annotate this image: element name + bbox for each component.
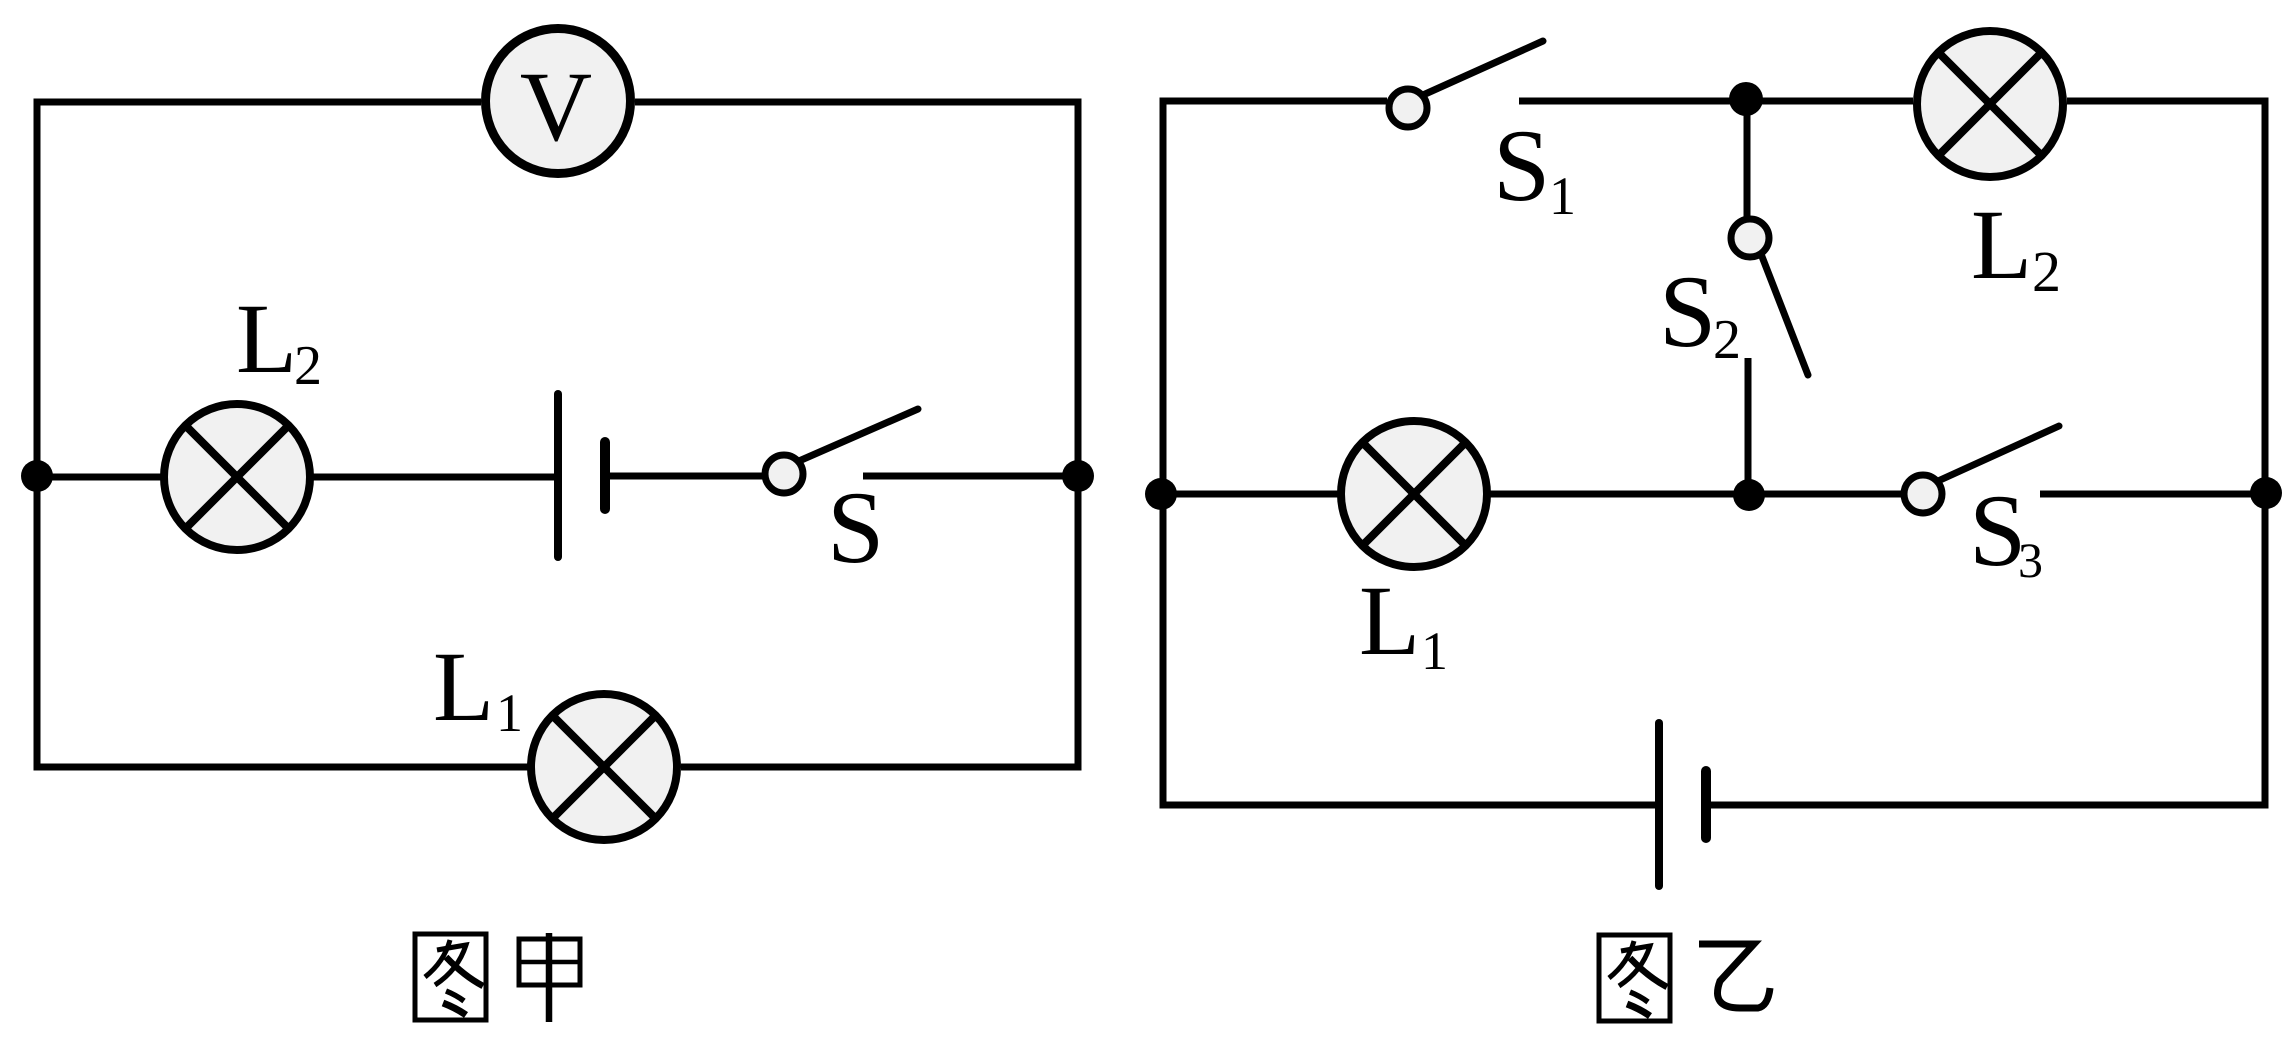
node left of figure 1 [21, 460, 53, 492]
wire [1748, 491, 1901, 498]
wire [1519, 98, 1913, 105]
battery cell figure 2 [1659, 723, 1706, 886]
lamp L1 of figure 2 [1341, 421, 1487, 567]
voltmeter V [486, 29, 631, 174]
lamp L2 of figure 2 [1917, 31, 2063, 177]
wire [1487, 491, 1748, 498]
svg-text:1: 1 [1421, 621, 1448, 681]
svg-text:V: V [520, 51, 592, 162]
svg-text:L: L [433, 631, 494, 742]
label S2 [1659, 255, 1741, 371]
svg-text:S: S [1493, 109, 1550, 223]
switch S1 [1389, 41, 1543, 127]
wire [1163, 491, 1344, 498]
label L1 of figure 2 [1359, 565, 1448, 681]
svg-text:3: 3 [2018, 532, 2043, 588]
wire vertical branch [1744, 99, 1751, 217]
wire [635, 102, 1078, 767]
wire [310, 474, 554, 481]
node top junction figure 2 [1729, 82, 1763, 116]
svg-text:2: 2 [1713, 309, 1741, 371]
lamp L2 [164, 404, 310, 550]
svg-text:L: L [1359, 565, 1420, 676]
node middle junction figure 2 [1733, 479, 1765, 511]
svg-text:S: S [827, 471, 884, 585]
wire [1163, 101, 1655, 805]
wire [37, 102, 528, 767]
wire [610, 473, 763, 480]
lamp L1 [531, 694, 677, 840]
node right of figure 2 [2250, 477, 2282, 509]
wire [37, 474, 168, 481]
label L1 [433, 631, 523, 743]
label S3 [1969, 474, 2043, 588]
wire [1710, 101, 2265, 805]
wire [863, 473, 1078, 480]
caption figure jia [415, 933, 580, 1022]
svg-text:S: S [1659, 255, 1716, 369]
svg-text:2: 2 [2032, 239, 2061, 304]
svg-text:1: 1 [1549, 166, 1576, 226]
node left of figure 2 [1145, 478, 1177, 510]
switch S2 [1731, 219, 1808, 375]
label L2 [236, 283, 322, 397]
label L2 of figure 2 [1971, 189, 2061, 304]
label S [827, 471, 884, 585]
svg-text:L: L [1971, 189, 2032, 300]
node right of figure 1 [1062, 460, 1094, 492]
svg-text:1: 1 [496, 683, 523, 743]
switch S3 [1904, 426, 2059, 513]
wire vertical branch lower [1745, 358, 1752, 494]
svg-text:L: L [236, 283, 297, 394]
switch S [765, 409, 918, 493]
svg-text:2: 2 [294, 335, 322, 397]
caption figure yi [1599, 935, 1770, 1021]
battery cell figure 1 [558, 394, 605, 557]
wire [2040, 491, 2265, 498]
label S1 [1493, 109, 1576, 226]
